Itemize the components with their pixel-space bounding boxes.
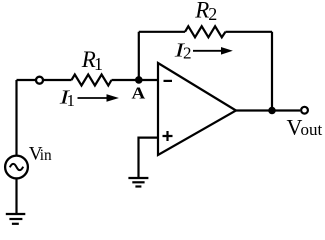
svg-text:1: 1 — [94, 54, 103, 74]
svg-text:out: out — [301, 120, 323, 139]
svg-text:A: A — [132, 84, 146, 103]
svg-text:2: 2 — [183, 44, 192, 63]
svg-text:R: R — [194, 0, 209, 22]
svg-text:1: 1 — [67, 91, 76, 110]
svg-text:in: in — [40, 147, 52, 164]
svg-text:2: 2 — [208, 4, 217, 24]
